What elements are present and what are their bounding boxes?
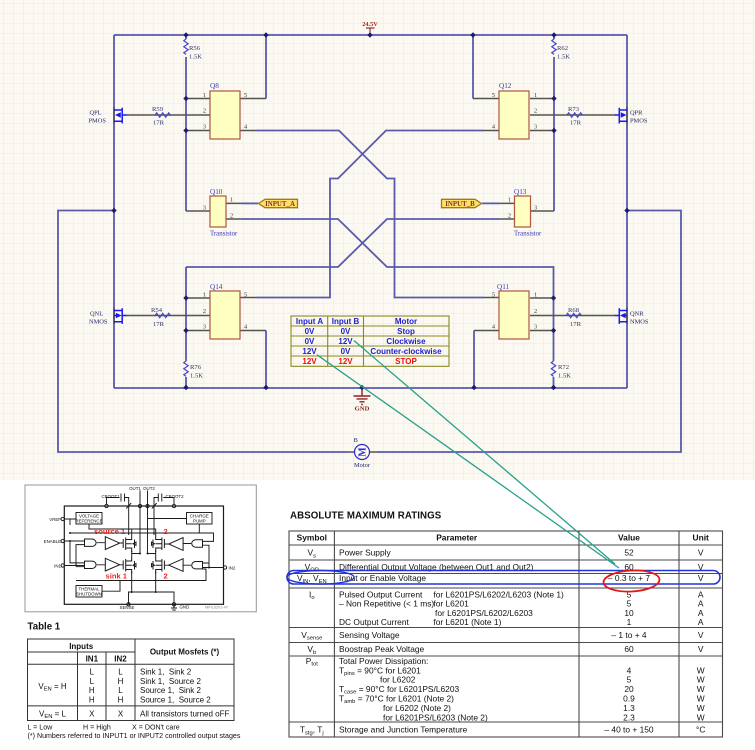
svg-text:Clockwise: Clockwise <box>386 337 426 346</box>
svg-text:IN2: IN2 <box>229 565 236 570</box>
svg-text:17R: 17R <box>570 120 582 127</box>
svg-text:All transistors turned oFF: All transistors turned oFF <box>140 709 229 718</box>
svg-text:SENSE: SENSE <box>120 605 135 610</box>
svg-text:Io: Io <box>309 589 315 601</box>
svg-text:PUMP: PUMP <box>193 518 206 523</box>
svg-text:Ptot: Ptot <box>306 656 318 668</box>
svg-text:3: 3 <box>203 205 206 212</box>
svg-text:1.5K: 1.5K <box>558 373 571 380</box>
svg-text:QNR: QNR <box>630 311 644 318</box>
svg-text:– Non Repetitive (< 1 ms): – Non Repetitive (< 1 ms) <box>339 599 434 609</box>
svg-text:1: 1 <box>508 197 511 204</box>
svg-text:Q14: Q14 <box>210 283 223 291</box>
svg-text:Vsense: Vsense <box>301 630 322 642</box>
svg-text:1: 1 <box>203 292 206 299</box>
svg-text:12V: 12V <box>338 357 353 366</box>
svg-text:W: W <box>697 712 705 722</box>
svg-text:Vs: Vs <box>308 548 317 560</box>
svg-text:Input B: Input B <box>332 317 360 326</box>
svg-text:Q12: Q12 <box>499 82 512 90</box>
svg-text:– 0.3 to + 7: – 0.3 to + 7 <box>608 573 650 583</box>
svg-text:CBOOT2: CBOOT2 <box>165 494 184 499</box>
svg-text:sink 1: sink 1 <box>106 572 128 581</box>
svg-text:L: L <box>118 686 123 695</box>
svg-text:Inputs: Inputs <box>69 642 94 651</box>
svg-text:V: V <box>698 573 704 583</box>
svg-text:H: H <box>118 677 124 686</box>
svg-text:Source 1, Sink 2: Source 1, Sink 2 <box>140 686 201 695</box>
svg-text:V: V <box>698 630 704 640</box>
svg-text:V: V <box>698 644 704 654</box>
svg-text:0V: 0V <box>305 327 315 336</box>
svg-text:Source 1, Source 2: Source 1, Source 2 <box>140 695 211 704</box>
svg-text:H: H <box>89 695 95 704</box>
svg-text:2: 2 <box>203 108 206 115</box>
svg-text:SHUTDOWN: SHUTDOWN <box>76 591 102 596</box>
svg-text:°C: °C <box>696 725 705 735</box>
svg-text:1.5K: 1.5K <box>190 373 203 380</box>
svg-text:2: 2 <box>164 527 168 536</box>
svg-text:QNL: QNL <box>90 311 103 318</box>
svg-text:Sink 1, Source 2: Sink 1, Source 2 <box>140 677 201 686</box>
svg-text:Sensing Voltage: Sensing Voltage <box>339 630 400 640</box>
svg-text:Q11: Q11 <box>497 283 510 291</box>
svg-text:Power Supply: Power Supply <box>339 548 391 558</box>
svg-text:Transistor: Transistor <box>210 231 238 238</box>
svg-text:3: 3 <box>534 124 537 131</box>
svg-text:CBOOT1: CBOOT1 <box>101 494 120 499</box>
svg-text:IN1: IN1 <box>86 655 99 664</box>
svg-text:DC Output Current: DC Output Current <box>339 617 409 627</box>
svg-text:INPUT_A: INPUT_A <box>265 201 295 208</box>
svg-text:1: 1 <box>534 292 537 299</box>
svg-text:Sink 1, Sink 2: Sink 1, Sink 2 <box>140 668 192 677</box>
svg-text:17R: 17R <box>153 321 165 328</box>
svg-text:VREF: VREF <box>49 517 61 522</box>
svg-text:ABSOLUTE MAXIMUM RATINGS: ABSOLUTE MAXIMUM RATINGS <box>290 511 442 522</box>
svg-text:R56: R56 <box>189 45 201 52</box>
svg-text:Storage and Junction Temperatu: Storage and Junction Temperature <box>339 725 468 735</box>
svg-text:24.5V: 24.5V <box>362 21 378 28</box>
svg-text:R68: R68 <box>568 307 580 314</box>
svg-text:L: L <box>90 668 95 677</box>
svg-text:Output Mosfets (*): Output Mosfets (*) <box>150 648 220 657</box>
svg-text:NMOS: NMOS <box>630 319 649 326</box>
svg-text:M: M <box>358 447 369 457</box>
svg-text:Stop: Stop <box>397 327 415 336</box>
svg-text:REFERENCE: REFERENCE <box>75 518 102 523</box>
svg-text:V: V <box>698 548 704 558</box>
svg-text:Table 1: Table 1 <box>28 622 61 633</box>
svg-text:GND: GND <box>355 406 370 413</box>
svg-text:0V: 0V <box>341 327 351 336</box>
svg-text:B: B <box>354 437 358 444</box>
svg-text:X: X <box>89 709 95 718</box>
svg-text:Transistor: Transistor <box>514 231 542 238</box>
svg-text:Parameter: Parameter <box>436 533 478 543</box>
svg-text:2: 2 <box>203 308 206 315</box>
svg-text:– 40 to + 150: – 40 to + 150 <box>604 725 653 735</box>
svg-text:1: 1 <box>203 92 206 99</box>
svg-text:1: 1 <box>534 92 537 99</box>
svg-text:R73: R73 <box>568 106 580 113</box>
svg-text:3: 3 <box>534 324 537 331</box>
svg-text:5: 5 <box>492 292 495 299</box>
svg-text:Boostrap Peak Voltage: Boostrap Peak Voltage <box>339 644 425 654</box>
svg-text:R62: R62 <box>557 45 568 52</box>
svg-text:OUT2: OUT2 <box>143 486 155 491</box>
svg-text:IN2: IN2 <box>114 655 127 664</box>
svg-text:17R: 17R <box>570 321 582 328</box>
svg-text:R76: R76 <box>190 364 202 371</box>
svg-text:3: 3 <box>203 124 206 131</box>
svg-text:L: L <box>90 677 95 686</box>
svg-text:1.5K: 1.5K <box>557 54 570 61</box>
svg-text:Symbol: Symbol <box>297 533 327 543</box>
svg-text:NMOS: NMOS <box>89 319 108 326</box>
svg-text:3: 3 <box>534 205 537 212</box>
svg-text:(*) Numbers referred to INPUT1: (*) Numbers referred to INPUT1 or INPUT2… <box>28 732 241 740</box>
svg-text:12V: 12V <box>338 337 353 346</box>
svg-text:– 1 to + 4: – 1 to + 4 <box>611 630 646 640</box>
svg-text:X = DON't care: X = DON't care <box>132 724 180 732</box>
svg-text:5: 5 <box>492 92 495 99</box>
svg-text:2: 2 <box>534 308 537 315</box>
svg-text:PMOS: PMOS <box>89 118 107 125</box>
svg-text:Motor: Motor <box>354 462 371 469</box>
svg-text:L: L <box>118 668 123 677</box>
svg-text:2: 2 <box>508 213 511 220</box>
svg-text:2: 2 <box>230 213 233 220</box>
svg-text:R54: R54 <box>151 307 163 314</box>
svg-text:Counter-clockwise: Counter-clockwise <box>370 347 442 356</box>
svg-text:0V: 0V <box>341 347 351 356</box>
svg-text:QPL: QPL <box>90 110 102 117</box>
svg-text:60: 60 <box>624 644 634 654</box>
svg-text:ENABLE: ENABLE <box>44 539 61 544</box>
svg-text:Input A: Input A <box>296 317 323 326</box>
svg-text:17R: 17R <box>153 120 165 127</box>
svg-text:Q13: Q13 <box>514 188 527 196</box>
svg-text:for L6201PS/L6203 (Note 2): for L6201PS/L6203 (Note 2) <box>383 712 488 722</box>
svg-text:STOP: STOP <box>395 357 417 366</box>
svg-text:Tstg, Tj: Tstg, Tj <box>300 725 324 737</box>
svg-text:1.5K: 1.5K <box>189 54 202 61</box>
svg-text:12V: 12V <box>302 357 317 366</box>
svg-text:R72: R72 <box>558 364 569 371</box>
svg-text:GND: GND <box>180 605 190 610</box>
svg-text:source 1: source 1 <box>94 527 126 536</box>
svg-text:H = High: H = High <box>83 724 111 732</box>
svg-text:Q8: Q8 <box>210 82 219 90</box>
svg-text:52: 52 <box>624 548 634 558</box>
svg-text:Q10: Q10 <box>210 188 223 196</box>
svg-text:Vb: Vb <box>307 644 316 656</box>
svg-text:INPUT_B: INPUT_B <box>445 201 475 208</box>
svg-text:A: A <box>698 617 704 627</box>
svg-text:2: 2 <box>164 572 168 581</box>
svg-text:5: 5 <box>244 292 247 299</box>
svg-text:OUT1: OUT1 <box>129 486 141 491</box>
svg-text:QPR: QPR <box>630 110 643 117</box>
svg-text:Value: Value <box>618 533 640 543</box>
svg-text:5: 5 <box>244 92 247 99</box>
svg-text:1: 1 <box>230 197 233 204</box>
svg-text:Motor: Motor <box>395 317 417 326</box>
svg-text:VEN = L: VEN = L <box>39 709 67 720</box>
svg-text:VEN = H: VEN = H <box>38 682 67 693</box>
svg-text:12V: 12V <box>302 347 317 356</box>
svg-text:3: 3 <box>203 324 206 331</box>
svg-text:2.3: 2.3 <box>623 712 635 722</box>
svg-text:X: X <box>118 709 124 718</box>
svg-text:PMOS: PMOS <box>630 118 648 125</box>
svg-text:0V: 0V <box>305 337 315 346</box>
svg-text:2: 2 <box>534 108 537 115</box>
svg-text:L = Low: L = Low <box>28 724 54 732</box>
svg-text:Unit: Unit <box>693 533 709 543</box>
svg-text:for L6201 (Note 1): for L6201 (Note 1) <box>433 617 501 627</box>
svg-text:H: H <box>118 695 124 704</box>
svg-text:R59: R59 <box>152 106 164 113</box>
svg-text:H: H <box>89 686 95 695</box>
svg-text:IN1: IN1 <box>54 563 61 568</box>
svg-text:MPIL6201-4Y: MPIL6201-4Y <box>205 606 229 610</box>
svg-text:1: 1 <box>627 617 632 627</box>
